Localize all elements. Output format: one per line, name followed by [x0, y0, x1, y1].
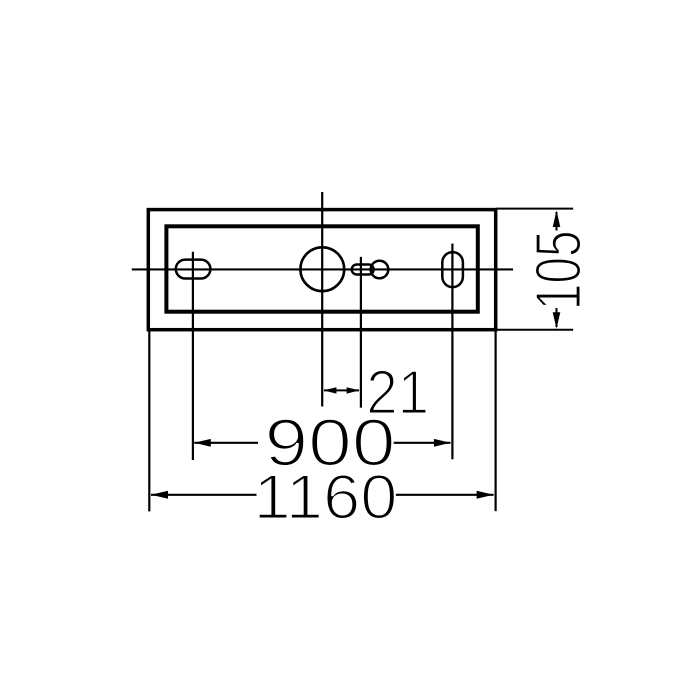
keyhole centerline / extension line [360, 257, 362, 408]
top extension line for 105 [496, 208, 573, 210]
dimension line 105 upper segment [556, 212, 558, 231]
dimension line 900 left segment [194, 442, 258, 444]
arrowhead 1160 right [477, 491, 494, 499]
right mounting slot [442, 252, 463, 287]
dimension line 21 [324, 389, 359, 391]
vertical centerline [321, 192, 323, 407]
arrowhead 900 right [434, 439, 451, 447]
outer plate outline [148, 210, 495, 330]
left mounting slot [176, 260, 211, 279]
left extension line for 1160 [148, 330, 150, 511]
left slot centerline / extension line [192, 252, 194, 460]
dimension line 105 lower segment [556, 308, 558, 327]
arrowhead 1160 left [151, 491, 168, 499]
horizontal centerline [132, 268, 513, 270]
svg-text:105: 105 [521, 230, 594, 310]
center hole [300, 247, 344, 291]
inner plate outline [166, 226, 477, 311]
dimension line 1160 right segment [395, 494, 494, 496]
right extension line for 1160 [495, 330, 497, 511]
arrowhead 105 up [553, 211, 561, 228]
svg-text:1160: 1160 [254, 463, 398, 533]
dimension line 900 right segment [392, 442, 451, 444]
arrowhead 105 down [553, 312, 561, 329]
arrowhead 21 right [347, 387, 360, 393]
right slot centerline / extension line [451, 244, 453, 460]
keyhole slot stem [352, 265, 374, 275]
dimension line 1160 left segment [151, 494, 257, 496]
arrowhead 900 left [194, 439, 211, 447]
keyhole circle [371, 261, 389, 279]
bottom extension line for 105 [496, 329, 573, 331]
arrowhead 21 left [323, 387, 336, 393]
